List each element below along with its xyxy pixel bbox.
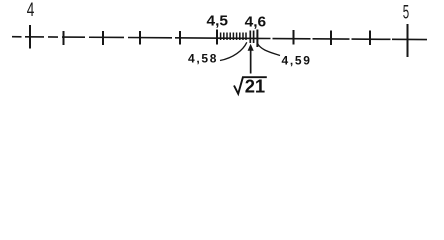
tick 4.5	[216, 30, 218, 45]
arrow pointing to sqrt(21) position	[248, 44, 254, 74]
tick 4.3	[139, 31, 141, 45]
leader curve from 4,58 to tick	[220, 42, 247, 60]
fine ticks between 4,5 and 4,6	[221, 33, 246, 41]
svg-text:4,6: 4,6	[245, 13, 267, 30]
svg-text:4,59: 4,59	[282, 54, 312, 68]
number line axis (dashed)	[12, 37, 427, 40]
svg-text:4: 4	[27, 0, 35, 21]
tick 4.6 (tall)	[256, 30, 258, 48]
svg-text:4,5: 4,5	[207, 12, 229, 29]
radical sign of sqrt(21)	[234, 77, 267, 94]
tick 4.8	[330, 31, 332, 46]
svg-text:5: 5	[403, 2, 409, 23]
tick 4 (major)	[29, 25, 31, 49]
tick 5 (major)	[407, 24, 409, 57]
leader curve from 4,59 to tick	[257, 43, 280, 55]
tick 4,58	[249, 31, 251, 44]
tick 4.9	[369, 31, 371, 46]
svg-text:4,58: 4,58	[188, 52, 218, 66]
tick 4,59	[253, 31, 255, 44]
tick 4.2	[102, 31, 104, 45]
tick 4.4	[179, 31, 181, 45]
tick 4.1	[63, 31, 65, 45]
svg-text:21: 21	[245, 76, 266, 97]
tick 4.7	[293, 30, 295, 45]
